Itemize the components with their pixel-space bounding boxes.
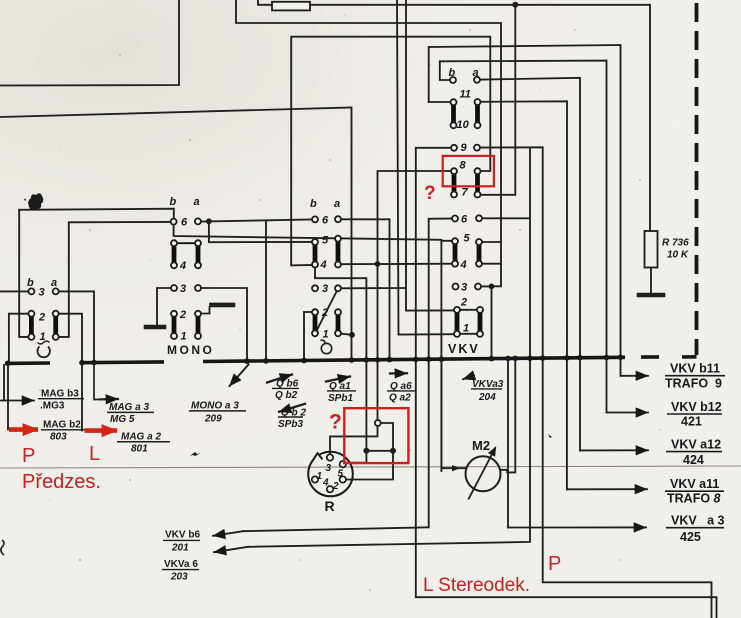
label VKVa3 / 204 (471, 379, 504, 403)
headphone symbol (38, 341, 50, 357)
wire C 2b bracket to bus (304, 312, 312, 360)
wire output b11 (620, 357, 622, 376)
wire A contact 2a to bus (59, 314, 82, 363)
wire MONO 6a node to C 6b (201, 220, 311, 222)
svg-text:803: 803 (50, 432, 67, 443)
T-bar contact (146, 325, 164, 330)
wire VKV 9a to P line vertical (477, 147, 712, 618)
wire VKV 5b bracket (441, 241, 452, 471)
wire VKV 2-1 box top (460, 309, 477, 311)
DIN connector R (308, 452, 353, 497)
wire output a12 (579, 358, 581, 451)
wire vertical under 6-line to bus (265, 220, 267, 361)
wire MONO 3a down to bus (202, 288, 248, 361)
wire VKV 11a to a11 output vertical (478, 101, 568, 357)
wire VKV 9b to L line vertical (416, 148, 717, 618)
wire MAG a3 arrow (94, 363, 100, 400)
svg-text:Q a2: Q a2 (389, 393, 411, 404)
node in red box left (363, 448, 369, 454)
switch VKV bar 8-7 b (452, 174, 457, 191)
scan page split line (0, 466, 741, 468)
node C 1a (349, 332, 355, 338)
svg-text:11: 11 (460, 89, 471, 101)
wire from top edge to contact 7a loop (236, 0, 501, 286)
node C4a (375, 261, 381, 267)
node MONO 6a (206, 218, 212, 224)
wire VKV a3 output line (508, 526, 646, 528)
label Qa6 / Qa2 (387, 381, 415, 404)
switch VKV bar 5-4 b (453, 244, 458, 260)
label MAG a3 / MG 5 (107, 402, 154, 425)
svg-text:.MG3: .MG3 (40, 401, 65, 412)
switch C bar 2-1 b (313, 315, 318, 330)
wire VKV over-the-top corner to b11 output vertical (429, 45, 621, 357)
wire VKV 2-1 box bottom (460, 333, 477, 335)
svg-text:VKV a11: VKV a11 (670, 477, 719, 491)
svg-text:MONO: MONO (167, 343, 214, 357)
switch A bar a (53, 317, 58, 334)
node VKV 3a (489, 284, 495, 290)
DIN pin numbers (317, 463, 344, 492)
svg-text:VKV b11: VKV b11 (670, 362, 720, 376)
wire VKV 8b down through C4a node to red-box circle (378, 171, 455, 420)
T-bar contact 2 (212, 303, 234, 308)
wire VKV 6b down to b6 output (429, 218, 455, 527)
label VKV b6 / 201 (163, 530, 200, 554)
wire MONO 5-4 top link (174, 242, 198, 244)
wire output a11 (566, 358, 568, 489)
svg-text:VKV b12: VKV b12 (671, 400, 722, 414)
wire MONO 2a to T bar (202, 307, 210, 314)
svg-text:201: 201 (171, 543, 189, 554)
wire M2 right jog to top-node vertical (500, 358, 515, 472)
border dashed line (695, 3, 699, 355)
wire MONO a3 arrow (230, 365, 249, 387)
wire resistor to corner x650 (310, 5, 650, 231)
label Qb6 / Qb2 (272, 379, 299, 401)
output label VKV a3 / 425 (666, 514, 725, 545)
wire VKV 3a to node (481, 286, 492, 358)
wire VKV a contact to a12 output vertical (477, 78, 580, 357)
wire top vertical to VKV 1b (397, 0, 454, 335)
svg-text:6: 6 (322, 215, 329, 227)
svg-text:MAG a 3: MAG a 3 (109, 402, 149, 413)
svg-text:4: 4 (322, 478, 329, 489)
ink blob artifact (28, 193, 43, 210)
output label VKV b12 / 421 (667, 400, 722, 429)
svg-text:MONO a 3: MONO a 3 (191, 401, 239, 412)
top-left box wire (0, 0, 179, 86)
label R736 / 10K (662, 238, 689, 261)
switch C bar 2-1 a (336, 315, 341, 330)
switch A bar b (29, 317, 34, 334)
wire VKV b bracket to b12 output vertical (440, 61, 607, 357)
arrowhead VKV a6 line (left end) (214, 547, 248, 552)
wire red-box circle to right node (381, 423, 393, 451)
svg-text:b: b (170, 196, 177, 208)
wire Qa1 arrow (326, 377, 350, 382)
wire bus to M2 left (441, 359, 466, 468)
svg-text:2: 2 (332, 481, 339, 492)
svg-text:203: 203 (170, 572, 188, 583)
svg-text:L Stereodek.: L Stereodek. (423, 575, 530, 596)
svg-text:2: 2 (321, 307, 328, 319)
contact numbers and letters (27, 67, 480, 357)
switch MONO contacts 6..1 (171, 219, 177, 225)
wire A contact 3a to bus (59, 291, 94, 362)
svg-text:Q b2: Q b2 (275, 390, 298, 401)
svg-text:2: 2 (460, 297, 467, 309)
wire output b12 (606, 358, 608, 413)
svg-text:209: 209 (204, 414, 222, 425)
red arrow MAG a2 (85, 428, 118, 433)
wire C3a to vertical junction (342, 287, 407, 289)
wire VKV 8a over top to C4b (291, 37, 490, 266)
svg-text:SPb3: SPb3 (278, 419, 303, 430)
label Qa1 / SPb1 (327, 381, 356, 404)
bus junction dots (5, 355, 623, 367)
switch VKV bar 11-10 b (451, 105, 456, 122)
wire C 6a to bus (342, 219, 390, 359)
svg-text:P: P (548, 553, 561, 575)
label Qb2 / SPb3 (278, 407, 306, 430)
svg-text:6: 6 (461, 214, 468, 226)
svg-text:4: 4 (460, 259, 467, 271)
wire R736 to ground (650, 268, 652, 294)
svg-text:9: 9 (461, 142, 468, 154)
resistor R736 (645, 231, 658, 268)
svg-text:Q a1: Q a1 (329, 381, 351, 392)
wire a6 long vertical from 9a line to VKV a6 label (248, 147, 530, 546)
red rectangle near DIN connector (344, 408, 408, 463)
wire A contact 3b from left edge (0, 290, 28, 292)
svg-text:a: a (334, 198, 340, 210)
svg-text:MAG b3: MAG b3 (41, 389, 79, 400)
check-mark artifact (190, 452, 201, 456)
small tick artifact right (548, 434, 552, 438)
label MONO a3 / 209 (189, 401, 246, 425)
open circle test point (375, 420, 381, 426)
svg-text:a: a (51, 277, 57, 289)
wire A contact 2b to bus (9, 314, 28, 363)
wire Qb6 arrow (267, 375, 292, 383)
wire node to DIN pin 5 (346, 451, 366, 463)
output label VKV a12 / 424 (666, 438, 722, 468)
svg-text:5: 5 (464, 233, 471, 245)
svg-text:P: P (22, 445, 35, 467)
svg-text:?: ? (424, 183, 436, 204)
switch bars (shorting contacts) (31, 105, 480, 334)
switch VKV bar 5-4 a (477, 245, 482, 261)
svg-text:3: 3 (326, 463, 332, 474)
svg-text:204: 204 (478, 392, 496, 403)
wire left vertical to A-column left bracket (19, 210, 28, 337)
wire bus to MAG b2 arrow (7, 363, 9, 429)
switch VKV bar 8-7 a (475, 174, 480, 191)
switch C bar 5-4 a (336, 242, 341, 262)
svg-text:MAG a 2: MAG a 2 (121, 432, 161, 443)
red rectangle around VKV contact 8 (443, 156, 494, 186)
svg-text:1: 1 (317, 471, 323, 482)
label MAG b2 / 803 (41, 420, 85, 443)
svg-text:TRAFO 9: TRAFO 9 (665, 377, 722, 391)
svg-text:VKVa 6: VKVa 6 (164, 559, 198, 570)
wire node stub down to C 5b (209, 221, 312, 242)
svg-text:3: 3 (322, 283, 328, 295)
switch VKV bar 2-1 a (478, 313, 483, 331)
svg-text:MG 5: MG 5 (110, 414, 135, 425)
svg-text:VKV b6: VKV b6 (165, 530, 200, 541)
meter M2 (466, 448, 501, 500)
svg-text:b: b (27, 277, 34, 289)
wire C 1a to node (342, 334, 353, 335)
svg-text:Předzes.: Předzes. (22, 471, 101, 493)
svg-text:6: 6 (181, 217, 188, 229)
wire red-box circle down to DIN pin 3 (330, 426, 378, 454)
wire bus to MAG a2 arrow (81, 363, 83, 431)
wire resistor R? feed (258, 0, 272, 5)
svg-text:8: 8 (460, 160, 467, 172)
svg-text:b: b (310, 198, 317, 210)
phono symbol (321, 340, 332, 354)
svg-text:a: a (473, 67, 479, 79)
svg-text:R 736: R 736 (662, 238, 689, 249)
svg-text:801: 801 (131, 444, 148, 455)
svg-text:425: 425 (680, 530, 701, 544)
tiny arrow on meter wire (452, 465, 460, 471)
red arrow MAG b2 (9, 427, 38, 432)
svg-text:1: 1 (181, 331, 187, 343)
wire left edge corner over to MONO 6b top (19, 209, 174, 219)
svg-text:10: 10 (457, 119, 470, 131)
svg-text:SPb1: SPb1 (328, 393, 353, 404)
svg-text:MAG b2: MAG b2 (43, 420, 81, 431)
wire right node to DIN pin 2 (346, 451, 393, 480)
svg-text:4: 4 (320, 259, 327, 271)
svg-text:1: 1 (323, 329, 329, 341)
label MAG b3 / MG3 (38, 389, 84, 412)
svg-text:?: ? (329, 411, 342, 434)
svg-text:M2: M2 (472, 438, 490, 453)
svg-text:2: 2 (179, 309, 186, 321)
svg-text:b: b (449, 67, 456, 79)
svg-text:10 K: 10 K (667, 250, 689, 261)
svg-text:VKV a 3: VKV a 3 (671, 514, 725, 528)
switch MONO bar 2-1 b (172, 317, 177, 333)
switch MONO bar 2-1 a (196, 317, 201, 333)
label VKVa6 / 203 (162, 559, 199, 583)
switch C bar 5-4 b (313, 245, 318, 262)
svg-text:VKVa3: VKVa3 (472, 379, 504, 390)
below-bus wiring (0, 268, 648, 552)
node in red box right (390, 448, 396, 454)
svg-text:5: 5 (322, 235, 329, 247)
contact circles (28, 77, 483, 340)
svg-text:421: 421 (681, 415, 702, 429)
switch VKV bar 2-1 b (455, 313, 460, 331)
ground (639, 293, 663, 298)
svg-text:4: 4 (179, 260, 186, 272)
label MAG a2 / 801 (117, 432, 170, 455)
switch C contacts 6..1 (312, 216, 318, 222)
svg-text:3: 3 (39, 287, 45, 299)
wire Qb2 arrow (279, 404, 305, 412)
svg-text:Q a6: Q a6 (390, 381, 412, 392)
wire MONO 3b to T bar (157, 288, 171, 325)
output label VKV a11 / TRAFO 8 (665, 477, 724, 506)
switch MONO bar 5-4 b (172, 246, 177, 262)
wire VKV 5a stub to vertical (482, 241, 501, 243)
wire C 4b down to red-box node (315, 268, 366, 451)
wire C switch actuator diagonal (316, 291, 336, 331)
output label VKV b11 / TRAFO 9 (665, 362, 725, 391)
svg-text:VKV: VKV (448, 342, 480, 356)
node (junction at top) (512, 2, 518, 8)
wire VKV b6 output line (243, 527, 429, 531)
resistor R? (top) (272, 2, 310, 11)
svg-text:3: 3 (180, 283, 186, 295)
wire Qa6 arrow (390, 372, 407, 375)
svg-text:L: L (89, 443, 100, 465)
wire VKVa3 arrow (points left) (463, 376, 474, 380)
left edge squiggle artifact (1, 540, 4, 555)
wire VKV 4a to corner (482, 263, 501, 265)
svg-text:a: a (194, 196, 200, 208)
svg-text:2: 2 (38, 312, 45, 324)
wire C4a to VKV 4b (338, 263, 455, 266)
wire left edge stub (3, 365, 5, 401)
svg-text:424: 424 (683, 453, 704, 467)
wire MAG b3 arrow (0, 400, 34, 402)
svg-text:R: R (325, 498, 335, 514)
bus line (dashed thick) (5, 357, 697, 364)
wire between nodes (366, 450, 393, 452)
svg-text:VKV a12: VKV a12 (671, 438, 721, 452)
switch VKV bar 11-10 a (475, 105, 480, 122)
svg-text:TRAFO 8: TRAFO 8 (667, 492, 721, 506)
wire VKV 6a to a6 output vertical (482, 217, 530, 219)
wire MONO 6b stub across to VKV 5b bracket (174, 225, 442, 240)
svg-text:1: 1 (463, 323, 469, 335)
wire (skewed horizontal to node at C1a vertical) (0, 108, 352, 362)
wire bus vertical down to a3 output line (507, 358, 509, 527)
wire VKV 11b stub (429, 101, 454, 103)
switch A contacts 3,2,1 (28, 288, 34, 294)
wire MONO 6b to A-column right bracket (59, 222, 171, 337)
wire top vertical to VKV 2b (406, 0, 454, 311)
wire contact 7a up to top node (478, 5, 516, 195)
switch VKV contacts b,a,11..1 (450, 77, 456, 83)
svg-text:7: 7 (462, 187, 469, 199)
svg-text:3: 3 (461, 282, 467, 294)
switch MONO bar 5-4 a (196, 246, 201, 262)
svg-text:5: 5 (338, 469, 344, 480)
